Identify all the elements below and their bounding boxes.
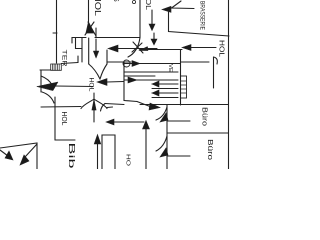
- svg-text:Büro: Büro: [206, 139, 215, 160]
- svg-text:HOL: HOL: [144, 0, 151, 10]
- svg-text:HOL: HOL: [93, 0, 103, 16]
- svg-text:HOL: HOL: [218, 40, 225, 57]
- svg-text:TER: TER: [61, 50, 68, 67]
- svg-text:HOL: HOL: [60, 112, 69, 126]
- svg-text:BRASSERIE: BRASSERIE: [199, 1, 205, 30]
- svg-text:HOL: HOL: [88, 78, 95, 92]
- svg-text:HO: HO: [125, 154, 131, 167]
- svg-text:Büro: Büro: [201, 107, 210, 126]
- svg-text:Bib: Bib: [67, 143, 77, 170]
- svg-text:VE: VE: [167, 64, 173, 73]
